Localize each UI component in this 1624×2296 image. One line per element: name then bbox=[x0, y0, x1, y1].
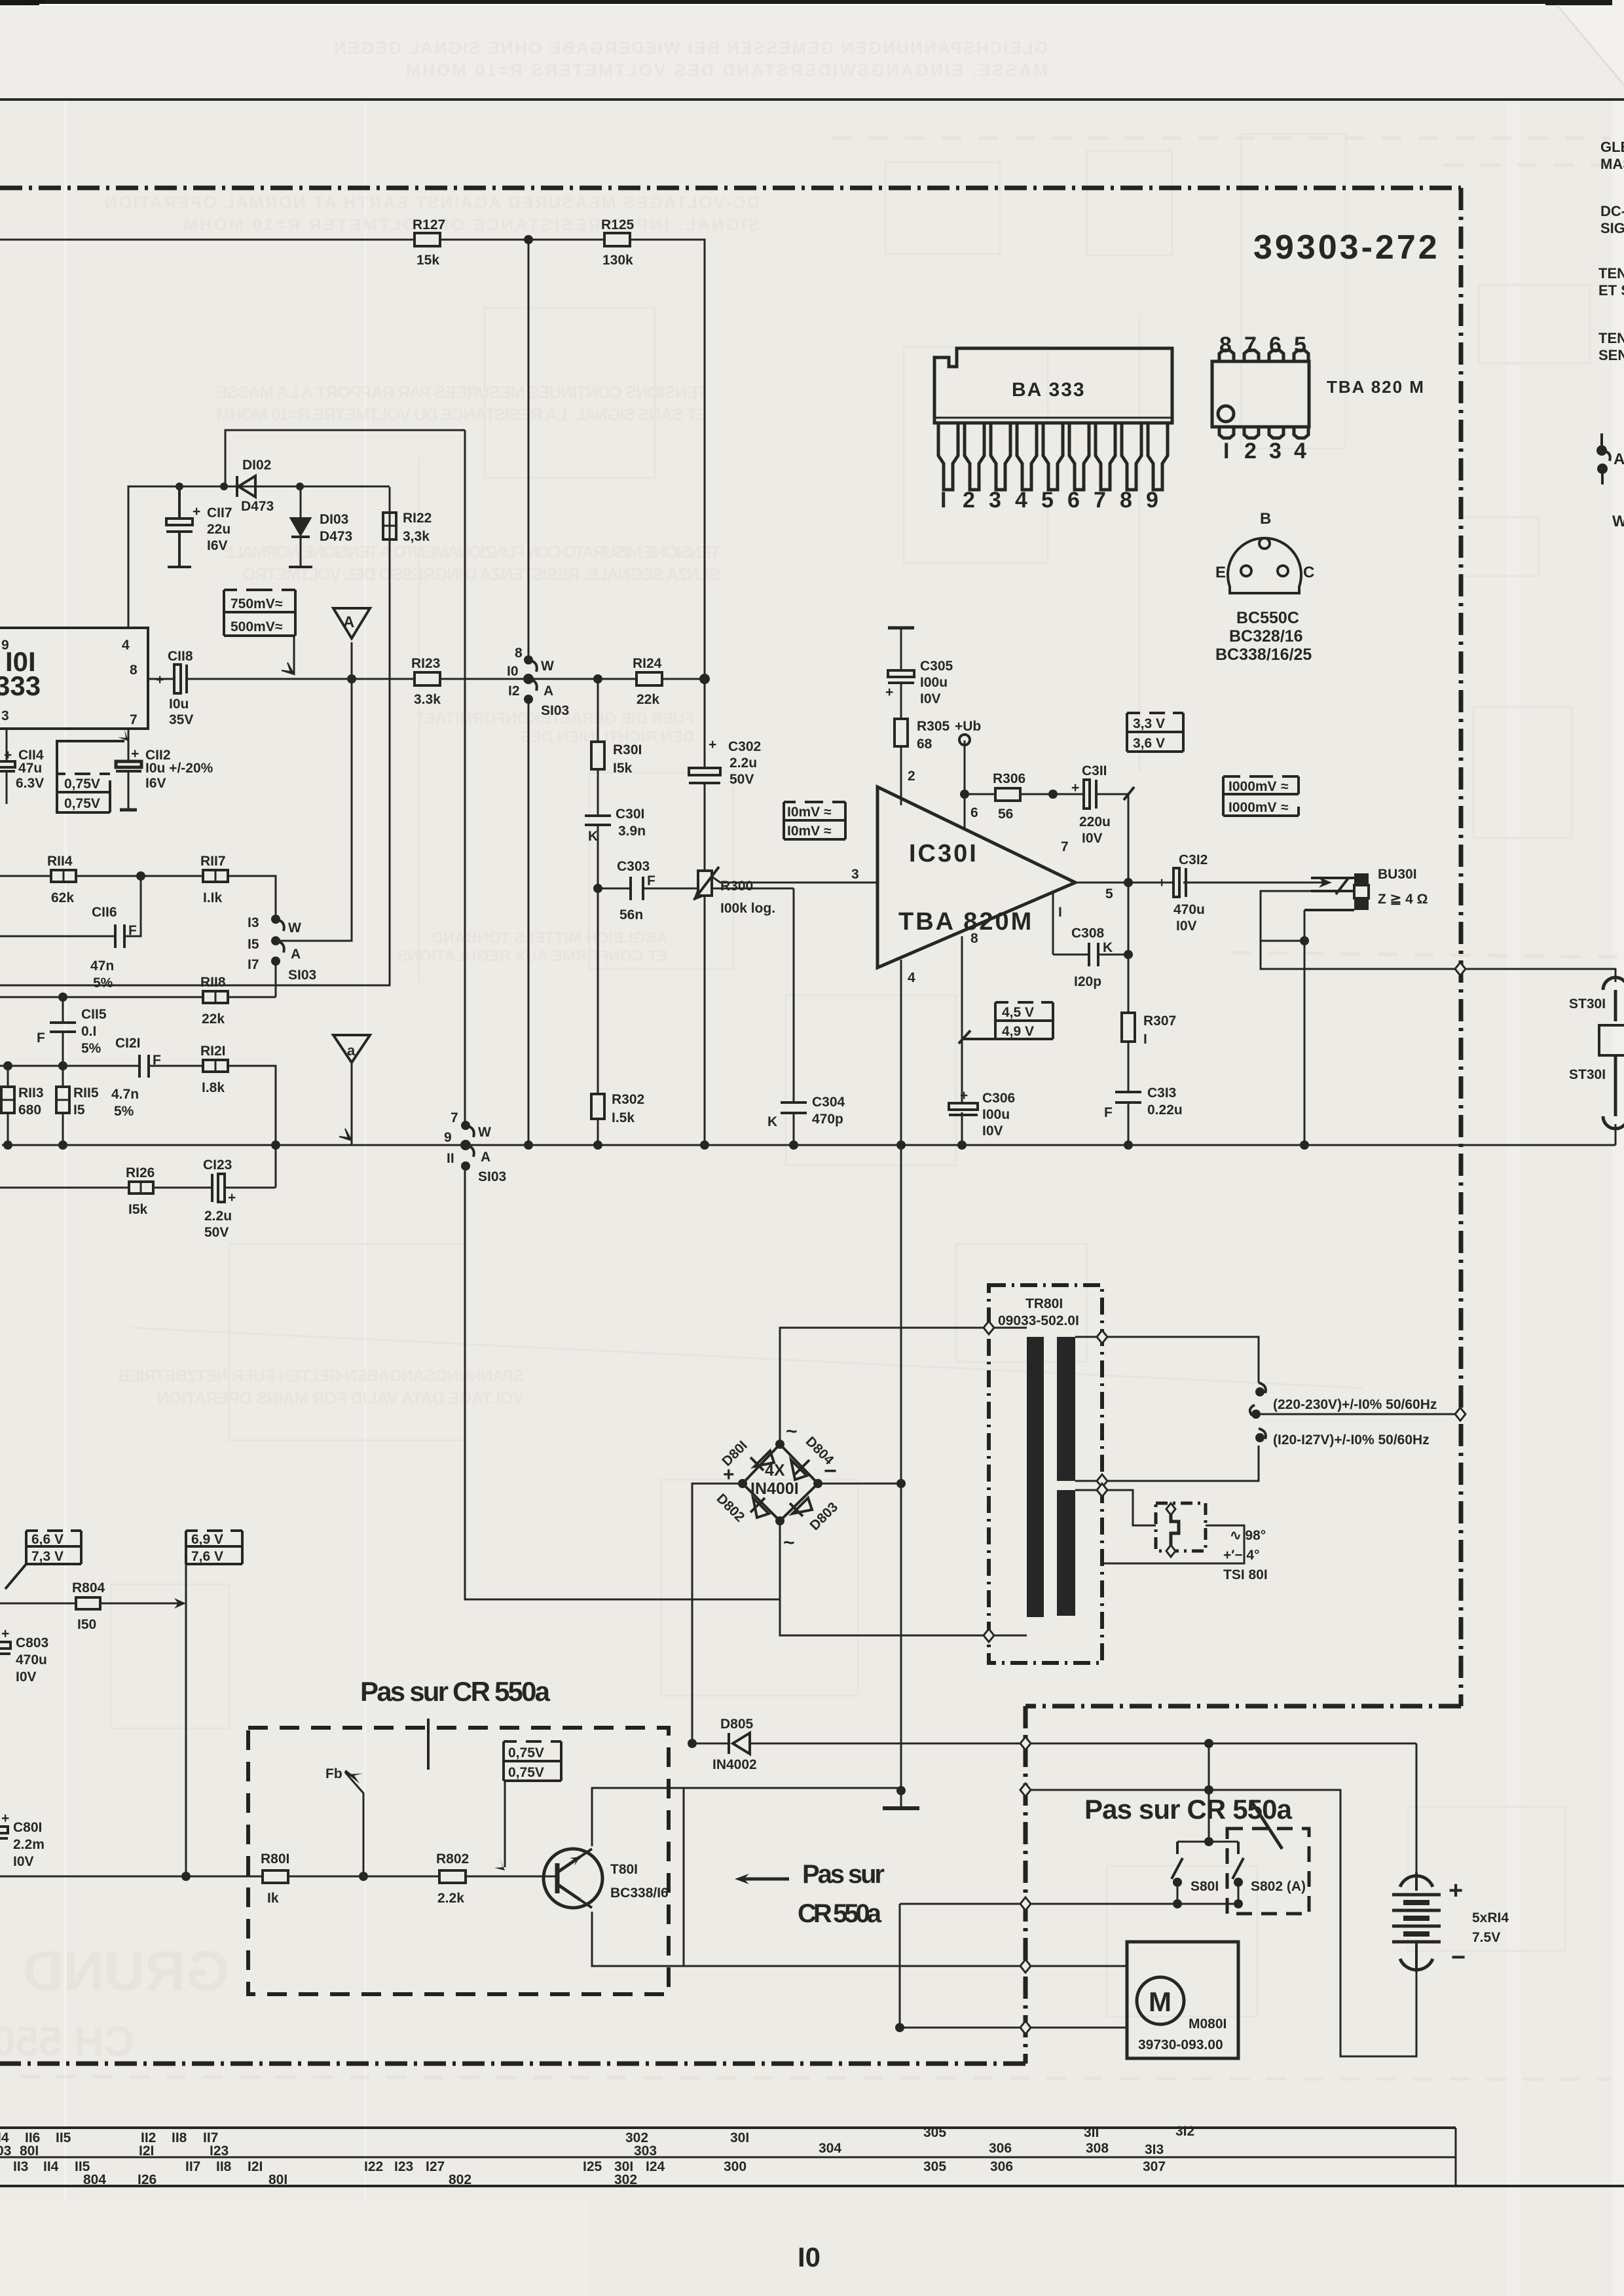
svg-text:+Ub: +Ub bbox=[955, 719, 981, 734]
svg-text:Pas sur CR 550a: Pas sur CR 550a bbox=[1084, 1794, 1293, 1825]
svg-text:II8: II8 bbox=[172, 2130, 187, 2145]
svg-text:3: 3 bbox=[851, 867, 859, 882]
resistor R115 bbox=[56, 1085, 99, 1118]
wire: bridge + to D805 node bbox=[692, 1484, 743, 1743]
svg-text:RI26: RI26 bbox=[126, 1165, 155, 1180]
IC BA333 package drawing bbox=[934, 348, 1172, 423]
svg-text:7,6 V: 7,6 V bbox=[191, 1549, 223, 1564]
top-right dogear bbox=[1557, 5, 1624, 85]
svg-text:C306: C306 bbox=[982, 1091, 1015, 1106]
svg-text:2.2k: 2.2k bbox=[437, 1891, 464, 1906]
svg-text:CR 550a: CR 550a bbox=[798, 1899, 882, 1928]
+Ub terminal bbox=[959, 735, 970, 745]
wire: 750mV box drop to signal rail bbox=[293, 636, 295, 674]
svg-text:5xRI4: 5xRI4 bbox=[1472, 1910, 1509, 1925]
svg-text:I.8k: I.8k bbox=[202, 1080, 225, 1095]
svg-text:MASS: MASS bbox=[1600, 156, 1624, 172]
svg-text:6,9 V: 6,9 V bbox=[191, 1532, 223, 1547]
resistor R307 bbox=[1122, 1013, 1176, 1047]
svg-text:22k: 22k bbox=[637, 692, 659, 707]
node D102 left bbox=[220, 483, 228, 490]
capacitor C116 bbox=[115, 924, 124, 948]
wire: TSI801 tap bbox=[1075, 1490, 1156, 1525]
slash from label to S802 box bbox=[1251, 1800, 1282, 1849]
svg-text:I23: I23 bbox=[210, 2143, 229, 2159]
capacitor C121 bbox=[139, 1055, 149, 1078]
svg-text:RI23: RI23 bbox=[411, 656, 440, 671]
svg-text:GLEICHSPANNUNGEN GEMESSEN BEI: GLEICHSPANNUNGEN GEMESSEN BEI WIEDERGABE… bbox=[334, 38, 1048, 58]
wire: 6.9V column down to base row bbox=[185, 1564, 187, 1876]
resistor R306 bbox=[993, 771, 1025, 822]
svg-text:4.7n: 4.7n bbox=[111, 1087, 139, 1102]
svg-text:F: F bbox=[37, 1030, 45, 1046]
wire: Fb drop bbox=[345, 1772, 363, 1876]
wire: IC101 pin7 column / C112 bbox=[128, 729, 130, 761]
svg-text:Ik: Ik bbox=[267, 1891, 279, 1906]
svg-text:A: A bbox=[1614, 450, 1624, 468]
resistor R127 bbox=[413, 217, 445, 268]
svg-text:8: 8 bbox=[515, 646, 523, 661]
svg-text:TENS: TENS bbox=[1598, 330, 1624, 346]
resistor R125 bbox=[601, 217, 635, 268]
svg-text:307: 307 bbox=[1143, 2159, 1166, 2174]
node D102 right bbox=[296, 483, 304, 490]
svg-text:SIGNAL. INPUT RESISTANCE OF VO: SIGNAL. INPUT RESISTANCE OF VOLTMETER R=… bbox=[183, 215, 760, 234]
svg-text:CII6: CII6 bbox=[92, 905, 117, 920]
svg-text:~: ~ bbox=[786, 1421, 798, 1442]
svg-text:I0: I0 bbox=[507, 664, 519, 679]
svg-text:I00u: I00u bbox=[920, 675, 948, 690]
svg-text:4: 4 bbox=[908, 970, 915, 985]
pointer from 4,5V box to pin8 column bbox=[964, 1038, 995, 1040]
svg-text:3,6 V: 3,6 V bbox=[1133, 736, 1165, 751]
svg-text:C3II: C3II bbox=[1082, 763, 1107, 778]
potentiometer R300 bbox=[694, 867, 719, 900]
wire: C116 row y1430 bbox=[0, 936, 115, 938]
svg-text:680: 680 bbox=[18, 1102, 41, 1118]
svg-text:K: K bbox=[1103, 940, 1113, 955]
node C304 rail / x1376 rail / x1723 rail bbox=[789, 1140, 798, 1150]
resistor R302 bbox=[591, 1092, 644, 1125]
capacitor C114 bbox=[0, 761, 15, 771]
wire: battery loop bbox=[1416, 1743, 1418, 1872]
svg-text:I6V: I6V bbox=[145, 776, 166, 791]
wire: primary bottom loop bbox=[1075, 1446, 1259, 1481]
svg-text:I0V: I0V bbox=[13, 1854, 34, 1869]
svg-text:DI02: DI02 bbox=[242, 458, 271, 473]
svg-text:+: + bbox=[709, 737, 716, 752]
paper crease right band bbox=[1506, 10, 1521, 2296]
svg-text:I000mV: I000mV bbox=[1228, 779, 1277, 794]
svg-text:C305: C305 bbox=[920, 659, 953, 674]
capacitor C308 bbox=[1089, 943, 1098, 966]
svg-text:F: F bbox=[1104, 1105, 1113, 1120]
svg-text:+: + bbox=[960, 1088, 968, 1103]
capacitor C118 bbox=[174, 665, 187, 693]
node C115 top bbox=[58, 993, 67, 1002]
svg-text:35V: 35V bbox=[169, 712, 193, 727]
svg-text:+: + bbox=[1071, 780, 1079, 795]
diode D802 bbox=[753, 1498, 769, 1518]
svg-text:22k: 22k bbox=[202, 1011, 225, 1027]
svg-text:I26: I26 bbox=[138, 2172, 157, 2187]
svg-text:2: 2 bbox=[908, 769, 915, 784]
bleed-through mirrored instruction text (back side of page) bbox=[105, 38, 1048, 1408]
svg-text:K: K bbox=[588, 829, 598, 844]
wire: R801/R802 base row y2866 bbox=[0, 1876, 263, 1878]
svg-text:II8: II8 bbox=[216, 2159, 232, 2174]
switch S103 contacts 8/10/12 bbox=[528, 660, 537, 691]
svg-text:I000mV: I000mV bbox=[1228, 800, 1277, 815]
node R124/C302 column bbox=[699, 674, 710, 684]
wire: R804 row bbox=[0, 1603, 76, 1605]
TBA820M pin numbers bbox=[1219, 333, 1306, 464]
resistor R121 bbox=[200, 1044, 228, 1095]
svg-text:C304: C304 bbox=[812, 1095, 845, 1110]
svg-text:2.2u: 2.2u bbox=[729, 756, 757, 771]
svg-text:306: 306 bbox=[989, 2141, 1012, 2156]
svg-text:470p: 470p bbox=[812, 1112, 843, 1127]
node C117 top bbox=[175, 483, 183, 490]
right margin: switch A symbol bbox=[1602, 433, 1610, 484]
wire: x1044 link bbox=[683, 1788, 685, 1966]
wire: R118 row y1523 bbox=[0, 996, 203, 998]
svg-text:4,9 V: 4,9 V bbox=[1002, 1024, 1034, 1039]
svg-text:03: 03 bbox=[0, 2143, 11, 2159]
tape head symbol a (triangle) bbox=[333, 1035, 370, 1063]
svg-text:802: 802 bbox=[449, 2172, 471, 2187]
wire: bridge bottom to secondary bottom y2498 bbox=[780, 1521, 1027, 1635]
wire: C311/3.3V column x1723 bbox=[1128, 794, 1130, 883]
svg-text:Fb: Fb bbox=[325, 1766, 342, 1781]
wire: C114 column stub bbox=[6, 729, 8, 761]
wire: main signal rail y1037 bbox=[148, 678, 174, 680]
svg-text:I5k: I5k bbox=[613, 761, 633, 776]
node R301 top bbox=[593, 674, 602, 683]
svg-text:DC-V: DC-V bbox=[1600, 203, 1624, 219]
wire: pin2 column C305/R305 bbox=[900, 639, 902, 670]
resistor R122 bbox=[383, 511, 432, 544]
wire: pin4 column to rail and power section bbox=[900, 960, 902, 1145]
svg-text:F: F bbox=[647, 873, 655, 888]
svg-text:39303-272: 39303-272 bbox=[1253, 228, 1440, 266]
mains voltage selector bbox=[1250, 1383, 1266, 1439]
svg-text:I0mV: I0mV bbox=[787, 824, 820, 839]
resistor R118 bbox=[200, 975, 228, 1027]
svg-text:D473: D473 bbox=[241, 499, 274, 514]
svg-text:2: 2 bbox=[1244, 439, 1257, 464]
svg-text:BC550C: BC550C bbox=[1236, 609, 1299, 627]
svg-text:56n: 56n bbox=[619, 907, 643, 922]
svg-text:TBA 820 M: TBA 820 M bbox=[1327, 377, 1425, 397]
svg-text:8: 8 bbox=[1120, 488, 1132, 513]
wire: T801 emitter rail y3003 bbox=[592, 1912, 1127, 1966]
paper crease left bbox=[64, 10, 67, 2296]
wire: R302 column to rail bbox=[597, 888, 599, 1094]
IC TBA820M DIP package drawing bbox=[1212, 350, 1309, 438]
svg-text:C3I2: C3I2 bbox=[1179, 852, 1208, 867]
svg-text:W: W bbox=[1612, 513, 1624, 530]
transformer secondary winding bars bbox=[1057, 1337, 1075, 1481]
svg-text:305: 305 bbox=[923, 2159, 946, 2174]
svg-text:130k: 130k bbox=[602, 253, 633, 268]
svg-text:I2: I2 bbox=[508, 683, 520, 699]
svg-text:I5: I5 bbox=[73, 1102, 85, 1118]
svg-text:C: C bbox=[1303, 564, 1314, 581]
svg-text:+: + bbox=[1449, 1877, 1463, 1904]
IC101 (BA333) box bbox=[0, 628, 148, 729]
svg-text:II4: II4 bbox=[43, 2159, 59, 2174]
svg-text:CII8: CII8 bbox=[168, 649, 193, 664]
svg-text:≈: ≈ bbox=[824, 824, 832, 839]
voltage box 6,9V/7,6V bbox=[186, 1531, 242, 1564]
svg-text:R307: R307 bbox=[1143, 1013, 1176, 1029]
svg-text:4: 4 bbox=[1294, 439, 1306, 464]
switch S801 bbox=[1204, 1837, 1213, 1846]
wire: 'a' triangle drop bbox=[351, 1063, 353, 1145]
svg-text:R306: R306 bbox=[993, 771, 1025, 786]
wire: bottom ground rail y1749 bbox=[2, 1144, 1615, 1146]
svg-text:3: 3 bbox=[1, 708, 9, 723]
svg-text:300: 300 bbox=[724, 2159, 747, 2174]
switch S802 (A) with dashed box bbox=[1227, 1829, 1309, 1914]
resistor R113 bbox=[1, 1085, 44, 1118]
resistor R114 bbox=[47, 854, 76, 905]
svg-text:RII4: RII4 bbox=[47, 854, 73, 869]
svg-text:+: + bbox=[228, 1190, 236, 1205]
capacitor C313 bbox=[1115, 1092, 1141, 1102]
svg-text:0,75V: 0,75V bbox=[508, 1745, 544, 1760]
svg-text:5: 5 bbox=[1105, 886, 1113, 902]
resistor R305 bbox=[895, 719, 950, 752]
svg-text:3.9n: 3.9n bbox=[618, 824, 646, 839]
svg-text:SI03: SI03 bbox=[288, 968, 316, 983]
wire: T801 collector rail y2731 bbox=[592, 1788, 901, 1846]
wire: R113 column bbox=[7, 1066, 9, 1087]
resistor R117 bbox=[200, 854, 228, 905]
node battery feed bbox=[1204, 1739, 1213, 1748]
measurement box 10mV/10mV bbox=[784, 802, 845, 839]
svg-text:15k: 15k bbox=[416, 253, 439, 268]
svg-text:(I20-I27V)+/-I0% 50/60Hz: (I20-I27V)+/-I0% 50/60Hz bbox=[1273, 1432, 1430, 1448]
wire: motor upper wire continues from battery loop bbox=[1238, 1903, 1240, 1905]
svg-text:333: 333 bbox=[0, 670, 41, 701]
svg-text:5: 5 bbox=[1294, 333, 1306, 357]
svg-text:+: + bbox=[156, 672, 164, 687]
svg-text:470u: 470u bbox=[16, 1652, 47, 1667]
svg-text:B: B bbox=[1260, 510, 1271, 528]
svg-text:SENZ: SENZ bbox=[1598, 347, 1624, 363]
svg-text:I22: I22 bbox=[364, 2159, 383, 2174]
svg-text:≈: ≈ bbox=[275, 596, 283, 611]
svg-text:3I3: 3I3 bbox=[1145, 2142, 1164, 2157]
measurement box 3,3V/3,6V bbox=[1127, 713, 1183, 752]
node collector rail / ground bbox=[895, 2023, 904, 2032]
svg-text:R305: R305 bbox=[917, 719, 950, 734]
svg-text:3.3k: 3.3k bbox=[414, 692, 441, 707]
svg-text:303: 303 bbox=[634, 2143, 657, 2159]
diode D801 bbox=[754, 1451, 774, 1467]
svg-text:TR80I: TR80I bbox=[1025, 1296, 1063, 1311]
wire: secondary top y2028 bbox=[780, 1328, 1027, 1444]
svg-text:RII3: RII3 bbox=[18, 1085, 44, 1101]
big mirrored GRUNDIG bleed bottom left bbox=[0, 1940, 229, 2065]
wire: x1723 down through C308/R307/C313 to rail bbox=[1128, 883, 1130, 1013]
bridge nodes bbox=[775, 1440, 784, 1449]
wire: A-triangle feed down and across to S103 15 bbox=[276, 642, 352, 941]
svg-text:305: 305 bbox=[923, 2125, 946, 2140]
pointer slash at C311 wire bbox=[1124, 787, 1134, 800]
wire: top rail with R127/R125 bbox=[0, 239, 415, 241]
svg-text:RI24: RI24 bbox=[633, 656, 662, 671]
svg-text:~: ~ bbox=[783, 1532, 795, 1554]
node A-triangle on rail bbox=[347, 674, 356, 683]
resistor R802 bbox=[436, 1851, 469, 1906]
svg-text:≈: ≈ bbox=[275, 619, 283, 634]
svg-text:3: 3 bbox=[989, 488, 1001, 513]
svg-text:804: 804 bbox=[83, 2172, 106, 2187]
op-amp IC301 TBA820M triangle bbox=[877, 787, 1075, 968]
component index table rules bbox=[0, 2126, 1456, 2129]
boundary diamond mains bbox=[1455, 1408, 1466, 1421]
index row 2 lower bbox=[83, 2172, 637, 2187]
svg-text:SI03: SI03 bbox=[478, 1169, 506, 1184]
node R306/C311 bbox=[1048, 790, 1058, 799]
index row 1 upper bbox=[0, 2124, 1194, 2145]
svg-text:I25: I25 bbox=[583, 2159, 602, 2174]
pin7 arrow bbox=[118, 729, 128, 741]
switch S103 contacts 13/15/17 bbox=[276, 919, 284, 953]
wire: frame right vertical x710 bbox=[464, 430, 466, 660]
svg-text:+: + bbox=[1, 1811, 9, 1826]
measurement box 1000mV/1000mV bbox=[1223, 776, 1299, 816]
svg-text:≈: ≈ bbox=[824, 805, 832, 820]
svg-text:6: 6 bbox=[1067, 488, 1080, 513]
svg-text:C303: C303 bbox=[617, 859, 650, 874]
svg-text:22u: 22u bbox=[207, 522, 231, 537]
wire: mains live y2160 bbox=[1261, 1413, 1460, 1415]
top frame line bbox=[0, 98, 1624, 101]
svg-text:W: W bbox=[478, 1125, 491, 1140]
svg-text:RII8: RII8 bbox=[200, 975, 226, 990]
node D805 anode bbox=[688, 1739, 697, 1748]
Pas sur CR 550a pointer arrow bbox=[735, 1874, 749, 1884]
svg-text:I27: I27 bbox=[426, 2159, 445, 2174]
svg-text:I.5k: I.5k bbox=[612, 1110, 635, 1125]
svg-text:9: 9 bbox=[1146, 488, 1158, 513]
svg-text:Z ≧ 4 Ω: Z ≧ 4 Ω bbox=[1378, 892, 1428, 907]
node R114/C116 bbox=[136, 871, 145, 881]
svg-text:RII7: RII7 bbox=[200, 854, 226, 869]
svg-text:0.I: 0.I bbox=[81, 1024, 96, 1039]
capacitor C112 bbox=[116, 761, 141, 810]
svg-text:47u: 47u bbox=[18, 761, 42, 776]
svg-text:K: K bbox=[767, 1114, 777, 1129]
svg-text:R804: R804 bbox=[72, 1580, 105, 1595]
svg-text:8: 8 bbox=[1219, 333, 1232, 357]
svg-text:R802: R802 bbox=[436, 1851, 469, 1867]
svg-text:2.2u: 2.2u bbox=[204, 1209, 232, 1224]
wire: S103 11 down to y2443 and right to bridge bbox=[465, 1166, 780, 1599]
measurement box 4,5V/4,9V bbox=[995, 1002, 1053, 1039]
resistor R126 bbox=[126, 1165, 155, 1217]
svg-text:I0V: I0V bbox=[1082, 831, 1103, 846]
svg-text:7: 7 bbox=[1244, 333, 1257, 357]
svg-text:7: 7 bbox=[1094, 488, 1106, 513]
thermal switch TSI801 box bbox=[1156, 1503, 1206, 1551]
svg-text:W: W bbox=[288, 920, 301, 936]
svg-text:≈: ≈ bbox=[1281, 800, 1289, 815]
wire: D102 frame top bbox=[128, 486, 225, 628]
capacitor C312 bbox=[1173, 868, 1186, 897]
svg-text:IN400I: IN400I bbox=[750, 1480, 799, 1498]
svg-text:I0u: I0u bbox=[169, 697, 189, 712]
svg-text:9: 9 bbox=[444, 1130, 452, 1145]
svg-text:ST30I: ST30I bbox=[1569, 996, 1606, 1011]
svg-text:47n: 47n bbox=[90, 958, 114, 974]
svg-text:6: 6 bbox=[970, 805, 978, 820]
svg-text:BC338/16/25: BC338/16/25 bbox=[1215, 646, 1312, 664]
ground at bridge minus bbox=[896, 1786, 906, 1795]
svg-text:2: 2 bbox=[963, 488, 975, 513]
svg-text:A: A bbox=[343, 613, 354, 631]
svg-text:M: M bbox=[1149, 1986, 1172, 2017]
svg-text:II: II bbox=[447, 1151, 454, 1166]
wire: 0.75V box drop to base row bbox=[504, 1781, 506, 1867]
svg-text:R127: R127 bbox=[413, 217, 445, 232]
scan black top edge bbox=[0, 0, 1624, 5]
node rail junctions bbox=[271, 1140, 280, 1150]
svg-text:CII7: CII7 bbox=[207, 505, 232, 520]
wire: R300 wiper to IC301 input bbox=[712, 877, 877, 883]
svg-text:500mV: 500mV bbox=[231, 619, 275, 634]
wire: jack return loop bbox=[1261, 891, 1460, 969]
svg-text:302: 302 bbox=[614, 2172, 637, 2187]
svg-text:ET SANS SIGNAL. LA RESISTANCE: ET SANS SIGNAL. LA RESISTANCE DU VOLTMET… bbox=[216, 405, 707, 424]
index row 2 upper bbox=[13, 2159, 1166, 2174]
svg-text:C30I: C30I bbox=[616, 807, 644, 822]
svg-text:A: A bbox=[291, 947, 301, 962]
svg-text:I23: I23 bbox=[394, 2159, 413, 2174]
wire: pin8 column 4.5V/C306 bbox=[961, 936, 963, 1103]
svg-text:BU30I: BU30I bbox=[1378, 867, 1417, 882]
svg-text:5%: 5% bbox=[114, 1104, 134, 1119]
label lead line bbox=[427, 1719, 430, 1770]
capacitor C304 bbox=[781, 1102, 807, 1113]
svg-text:II3: II3 bbox=[13, 2159, 28, 2174]
bridge rectifier D801-D804 bbox=[743, 1444, 818, 1521]
top strip above frame slightly lighter bbox=[0, 5, 1624, 100]
svg-text:R125: R125 bbox=[601, 217, 635, 232]
svg-text:80I: 80I bbox=[20, 2143, 39, 2159]
node R113 rail / R115 rail bbox=[3, 1140, 12, 1150]
svg-text:IN4002: IN4002 bbox=[712, 1757, 757, 1772]
wire: C115 column bbox=[62, 997, 64, 1023]
arrow from 750mV box to signal rail bbox=[282, 663, 294, 674]
node Fb/R801 bbox=[359, 1872, 368, 1881]
transformer TR801 enclosure (dash-dot) bbox=[989, 1285, 1102, 1663]
wire: C303 to C304 joint bbox=[705, 888, 794, 890]
svg-text:6,6 V: 6,6 V bbox=[31, 1532, 64, 1547]
capacitor C117 bbox=[166, 486, 193, 567]
capacitor C801 bbox=[0, 1827, 8, 1838]
svg-text:6.3V: 6.3V bbox=[16, 776, 44, 791]
wire: junction column x807 down to S103 8 bbox=[528, 240, 530, 660]
switch S103 contacts 7/9/11 bbox=[466, 1125, 474, 1157]
boundary diamond y1480 bbox=[1455, 962, 1466, 975]
svg-text:I3: I3 bbox=[248, 915, 259, 930]
svg-text:I0V: I0V bbox=[982, 1123, 1003, 1139]
